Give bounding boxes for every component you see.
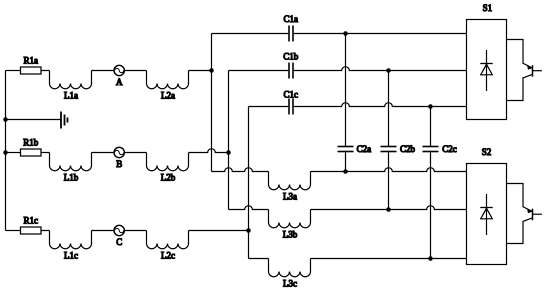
wire L3b row right	[311, 206, 467, 210]
svg-text:L1a: L1a	[64, 91, 78, 101]
wire row C: L1c to source	[92, 230, 114, 232]
wire phase A vertical riser	[211, 34, 213, 172]
node C1c-C2c junction	[428, 104, 433, 109]
inductor L1c	[50, 231, 92, 261]
wire row B: L2b to node	[189, 149, 229, 153]
wire C2a column top	[345, 34, 347, 147]
wire C1a row left	[212, 33, 289, 35]
converter block S2	[467, 147, 507, 264]
AC source B	[114, 147, 124, 169]
wire row C: R1c to L1c	[41, 230, 50, 232]
svg-text:C2a: C2a	[357, 144, 372, 154]
AC source A	[114, 65, 124, 87]
wire C2b column top	[388, 71, 390, 147]
svg-text:S1: S1	[483, 3, 493, 13]
wire phase C vertical riser	[248, 107, 250, 259]
wire L3b row left	[229, 206, 269, 210]
AC source C	[114, 225, 124, 247]
wire row B: R1b to L1b	[41, 152, 50, 154]
capacitor C1a	[284, 14, 299, 42]
wire row A: L1a to source	[92, 70, 114, 72]
wire C1a row right	[294, 33, 467, 35]
wire row B: source to L2b	[125, 152, 147, 154]
capacitor C2b	[381, 144, 416, 154]
wire row C: source to L2c	[125, 230, 147, 232]
inductor L2c	[147, 231, 189, 261]
wire C1b row left	[229, 70, 289, 72]
inductor L2a	[147, 71, 189, 101]
node L3b-C2b junction	[386, 207, 391, 212]
svg-text:R1a: R1a	[24, 56, 39, 66]
wire C1b row right	[294, 67, 467, 71]
wire L3a row right	[311, 168, 467, 172]
wire phase B vertical riser	[228, 71, 230, 210]
wire C2b column bottom	[388, 152, 390, 210]
inductor L2b	[147, 153, 189, 183]
wire row C: L2c to node	[189, 230, 249, 232]
svg-text:L1c: L1c	[64, 251, 78, 261]
wire C1c row left	[249, 106, 289, 108]
capacitor C2a	[338, 144, 372, 154]
svg-text:S2: S2	[482, 147, 492, 157]
capacitor C1c	[284, 89, 299, 114]
transistor Q2 of S2	[507, 184, 542, 244]
node L3a-C2a junction	[343, 169, 348, 174]
resistor R1b	[21, 138, 42, 157]
node phase A junction	[209, 68, 214, 73]
svg-text:R1c: R1c	[24, 216, 39, 226]
svg-text:A: A	[116, 77, 123, 87]
svg-text:L1b: L1b	[64, 173, 79, 183]
wire L3a row left	[212, 168, 269, 172]
svg-text:C2c: C2c	[442, 144, 457, 154]
wire row B: L1b to source	[92, 152, 114, 154]
svg-text:C: C	[116, 237, 122, 247]
svg-text:B: B	[116, 159, 122, 169]
inductor L3c	[269, 259, 311, 289]
svg-text:C1c: C1c	[284, 89, 299, 99]
diode D2 inside S2	[480, 194, 492, 235]
node phase B tap	[3, 150, 8, 155]
node C1b-C2b junction	[386, 68, 391, 73]
svg-text:L2b: L2b	[161, 173, 176, 183]
svg-text:L3c: L3c	[283, 279, 297, 289]
svg-text:L2a: L2a	[161, 91, 175, 101]
wire C2c column bottom	[430, 152, 432, 259]
node ground tap	[3, 117, 8, 122]
wire ground branch	[6, 119, 61, 121]
inductor L3a	[269, 172, 311, 202]
node L3c-C2c junction	[428, 256, 433, 261]
svg-text:L3a: L3a	[283, 192, 297, 202]
inductor L3b	[269, 210, 311, 240]
svg-text:R1b: R1b	[23, 138, 39, 148]
svg-text:C1b: C1b	[283, 52, 299, 62]
wire left phase bus vertical	[5, 71, 7, 231]
inductor L1b	[50, 153, 92, 183]
inductor L1a	[50, 71, 92, 101]
resistor R1a	[21, 56, 42, 75]
wire row A: source to L2a	[125, 70, 147, 72]
wire row B: bus to R1b	[6, 152, 21, 154]
diode D1 inside S1	[480, 50, 492, 91]
transistor Q1 of S1	[507, 40, 542, 101]
converter block S1	[467, 3, 507, 120]
wire C2a column bottom	[345, 152, 347, 172]
resistor R1c	[21, 216, 42, 235]
wire C2c column top	[430, 107, 432, 147]
wire L3c row left	[249, 258, 269, 260]
ground	[61, 112, 68, 129]
svg-text:L2c: L2c	[161, 251, 175, 261]
node phase C junction	[246, 228, 251, 233]
node C1a-C2a junction	[343, 31, 348, 36]
capacitor C1b	[283, 52, 299, 79]
wire row C: bus to R1c	[6, 230, 21, 232]
wire row A: bus to R1a	[6, 70, 21, 72]
wire L3c row right	[311, 258, 467, 260]
node phase B junction	[226, 150, 231, 155]
svg-text:C2b: C2b	[400, 144, 416, 154]
capacitor C2c	[423, 144, 457, 154]
wire row A: L2a to node	[189, 70, 212, 72]
wire C1c row right	[294, 103, 467, 107]
wire row A: R1a to L1a	[41, 70, 50, 72]
svg-text:C1a: C1a	[284, 14, 299, 24]
svg-text:L3b: L3b	[283, 230, 298, 240]
